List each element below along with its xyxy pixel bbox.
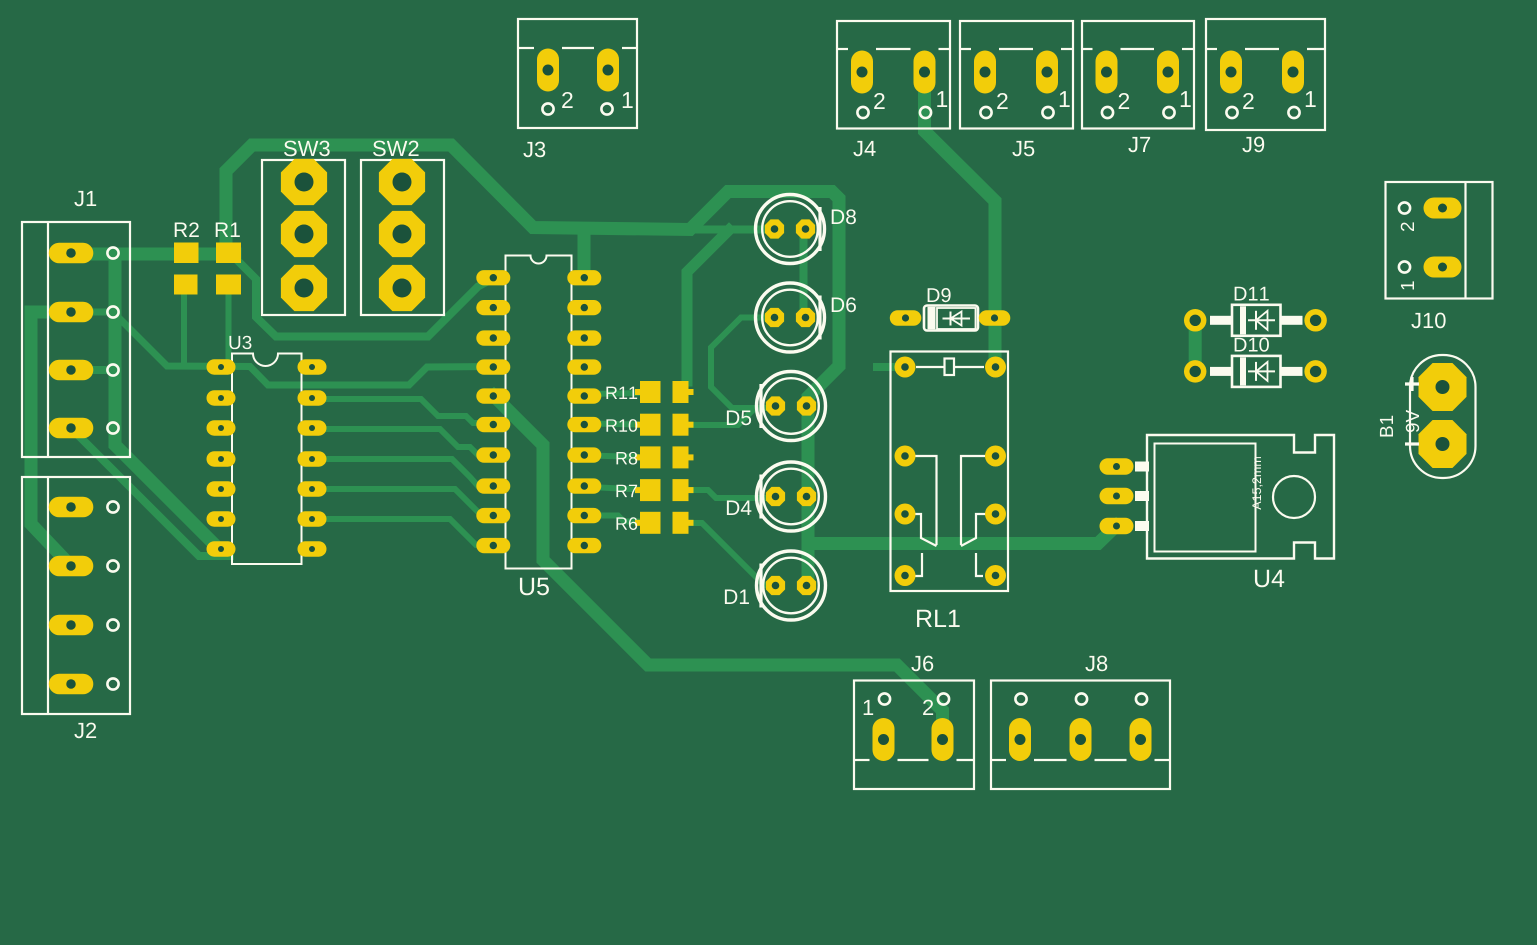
SW3 pad 1 — [281, 159, 327, 205]
wire U3 pin10 staircase — [326, 459, 493, 486]
D4 cathode pad — [766, 487, 785, 506]
J9 pin number 1 — [1306, 91, 1316, 107]
LED D1 outline — [757, 551, 826, 620]
J5 hole ring 1 — [1042, 107, 1053, 118]
U3 pad 5 (left) — [207, 481, 236, 497]
U3 pad 7 (left) — [207, 541, 236, 557]
switch SW3 outline — [262, 160, 345, 315]
U5 pad 15 (right) — [567, 417, 601, 432]
J4 pad 1 — [914, 51, 936, 94]
resistor R11 pad 2 — [673, 381, 694, 403]
B1 pad - — [1419, 420, 1467, 468]
U5 pad 18 (right) — [567, 330, 601, 345]
U3 pad 9 (right) — [298, 511, 327, 527]
IC U3 outline — [232, 354, 302, 565]
wire U3 pin11 staircase — [326, 489, 493, 515]
label J6 — [911, 656, 933, 672]
resistor R7 pad 1 — [635, 479, 661, 501]
J9 hole ring 2 — [1226, 107, 1237, 118]
connector J3 outline — [518, 19, 637, 128]
label J4 — [853, 141, 875, 156]
J8 pad 3 — [1130, 718, 1152, 761]
wire R1 top arc to U5 pin1 — [240, 263, 493, 337]
J3 hole ring 1 — [601, 103, 612, 114]
U3 pad 11 (right) — [298, 451, 327, 467]
J2 hole ring 4 — [107, 678, 118, 689]
U5 pad 9 (left) — [476, 508, 510, 523]
U5 pad 2 (left) — [476, 300, 510, 315]
J9 pin number 2 — [1243, 93, 1253, 109]
label D4 — [727, 501, 752, 515]
J10 pad 2 — [1424, 198, 1462, 219]
wire U5 pin14 to R7 — [590, 487, 640, 490]
LED D6 outline — [756, 283, 825, 352]
J7 pin number 2 — [1119, 93, 1129, 109]
LED D4 outline — [757, 462, 826, 531]
RL1 coil symbol — [916, 359, 984, 376]
U3 pad 12 (right) — [298, 420, 327, 436]
J2 hole ring 1 — [107, 501, 118, 512]
resistor R1 pad 2 — [216, 275, 241, 295]
label U5 — [520, 578, 549, 595]
J1 hole ring 3 — [107, 364, 118, 375]
regulator U4 outline — [1147, 435, 1334, 559]
J10 pin number 2 — [1401, 222, 1414, 231]
U5 pad 7 (left) — [476, 447, 510, 462]
diode D9 outline — [924, 306, 978, 331]
wire J4.1 down to D9/RL1 coil — [925, 92, 996, 367]
wire J1.1 to R2/R1 top pads — [71, 248, 235, 261]
U3 pad 1 (left) — [207, 359, 236, 375]
U5 pad 14 (right) — [567, 447, 601, 462]
label R7 — [616, 485, 637, 497]
RL1 pad 8 — [985, 565, 1006, 586]
label J5 — [1012, 141, 1034, 156]
J8 hole ring 1 — [1015, 693, 1026, 704]
J2 pad 4 — [49, 674, 94, 695]
J8 hole ring 3 — [1136, 693, 1147, 704]
resistor R1 pad 1 — [216, 243, 241, 264]
wire R11 up to cathode bus — [687, 230, 729, 381]
wire U5 pin6 down to J6.2 — [494, 396, 943, 739]
connector J8 outline — [991, 681, 1170, 790]
label R6 — [616, 517, 637, 530]
wire J1.3 stub to via column — [71, 366, 115, 374]
wire D8 cathode to D6 cathode — [800, 229, 808, 318]
D10 pad 2 — [1304, 360, 1327, 383]
J9 hole ring 1 — [1288, 107, 1299, 118]
U4 lead 1 — [1135, 462, 1149, 472]
SW2 pad 1 — [379, 159, 425, 205]
label J3 — [523, 142, 545, 158]
resistor R2 pad 1 — [174, 243, 199, 264]
J7 pin number 1 — [1181, 91, 1191, 107]
J5 pad 1 — [1036, 51, 1058, 94]
U3 pad 6 (left) — [207, 511, 236, 527]
label D9 — [928, 288, 951, 302]
label R11 — [606, 387, 637, 399]
U3 pad 8 (right) — [298, 541, 327, 557]
label D11 — [1235, 287, 1269, 301]
RL1 pad 5 — [895, 504, 916, 525]
LED D5 outline — [757, 372, 826, 441]
SW2 pad 2 — [379, 211, 425, 257]
J1 hole ring 2 — [107, 306, 118, 317]
wire U3 pin8 to U5 pin6 staircase — [326, 399, 493, 423]
connector J2 outline — [22, 477, 130, 714]
J6 pin number 1 — [864, 700, 873, 715]
U3 pad 3 (left) — [207, 420, 236, 436]
connector J1 outline — [22, 222, 130, 457]
J5 pin number 1 — [1060, 91, 1070, 107]
RL1 pad 6 — [985, 504, 1006, 525]
D6 cathode pad — [765, 308, 784, 327]
J2 pad 1 — [49, 497, 94, 518]
connector J6 outline — [854, 681, 974, 790]
connector J10 outline — [1386, 182, 1493, 299]
connector J9 outline — [1206, 19, 1325, 130]
J3 pin number 2 — [562, 92, 572, 108]
J1 pad 4 — [49, 418, 94, 439]
J5 pad 2 — [974, 51, 996, 94]
RL1 pad 1 — [895, 357, 916, 378]
RL1 switch symbol right — [961, 456, 987, 576]
label J7 — [1128, 137, 1150, 152]
J2 hole ring 3 — [107, 619, 118, 630]
label D1 — [725, 590, 749, 604]
wire D11 to D10 anodes — [1189, 325, 1202, 366]
label J2 — [74, 723, 96, 739]
SW3 pad 3 — [281, 265, 327, 311]
U5 pad 12 (right) — [567, 508, 601, 523]
U4 lead 3 — [1135, 521, 1149, 531]
U5 pad 16 (right) — [567, 388, 601, 403]
wire RL1 coil stub — [877, 363, 895, 371]
J1 pad 1 — [49, 243, 94, 264]
resistor R11 pad 1 — [635, 381, 661, 403]
label R1 — [216, 223, 240, 237]
wire D6 anode down to D5 anode net — [711, 318, 775, 409]
J8 pad 1 — [1009, 718, 1031, 761]
J6 pin number 2 — [923, 700, 933, 715]
D8 anode pad — [796, 219, 815, 238]
D8 cathode pad — [765, 219, 784, 238]
label SW3 — [284, 141, 330, 157]
J4 pin number 1 — [937, 91, 947, 107]
label RL1 — [917, 610, 960, 627]
J5 hole ring 2 — [980, 107, 991, 118]
label J8 — [1085, 656, 1107, 672]
RL1 pad 3 — [895, 446, 916, 467]
SW3 pad 2 — [281, 211, 327, 257]
U4 pad 2 — [1100, 488, 1134, 505]
U5 pad 6 (left) — [476, 417, 510, 432]
resistor R6 pad 2 — [673, 512, 694, 534]
RL1 switch symbol left — [913, 456, 937, 576]
J3 pin number 1 — [623, 92, 633, 108]
U5 pad 17 (right) — [567, 359, 601, 374]
wire R6 to D1 anode — [688, 523, 775, 586]
relay RL1 outline — [891, 352, 1009, 592]
U5 pad 5 (left) — [476, 388, 510, 403]
J1 hole ring 1 — [107, 247, 118, 258]
U3 pad 4 (left) — [207, 451, 236, 467]
connector J7 outline — [1082, 21, 1194, 129]
wire R1 bottom down to notch net — [226, 294, 232, 366]
U4 hole size label — [1252, 457, 1262, 510]
LED D8 outline — [756, 195, 825, 264]
J8 pad 2 — [1070, 718, 1092, 761]
D5 cathode pad — [766, 396, 785, 415]
resistor R8 pad 1 — [635, 446, 661, 468]
J6 pad 2 — [932, 718, 954, 761]
resistor R10 pad 2 — [673, 414, 694, 436]
B1 value 9V — [1406, 410, 1419, 432]
label R8 — [616, 452, 637, 465]
J2 hole ring 2 — [107, 560, 118, 571]
J7 hole ring 1 — [1163, 107, 1174, 118]
battery B1 outline — [1410, 355, 1476, 478]
B1 pad + — [1419, 363, 1467, 411]
U4 mounting hole — [1273, 476, 1315, 518]
J6 hole ring 2 — [938, 693, 949, 704]
RL1 pad 2 — [985, 357, 1006, 378]
wire U5 pin15 to R8 — [590, 456, 640, 458]
J1 pad 2 — [49, 302, 94, 323]
D11 pad 2 — [1304, 309, 1327, 332]
D1 cathode pad — [766, 576, 785, 595]
RL1 pad 4 — [985, 446, 1006, 467]
J10 hole ring 2 — [1399, 202, 1410, 213]
J4 pin number 2 — [874, 93, 884, 109]
J10 pad 1 — [1424, 257, 1462, 278]
resistor R7 pad 2 — [673, 479, 694, 501]
label SW2 — [373, 141, 419, 157]
U5 pad 10 (left) — [476, 538, 510, 553]
label D5 — [727, 411, 751, 426]
wire U3 pin12 staircase — [326, 519, 493, 546]
J2 pad 2 — [49, 556, 94, 577]
IC U5 outline — [506, 256, 572, 569]
J7 hole ring 2 — [1102, 107, 1113, 118]
label U3 — [229, 336, 251, 349]
label R2 — [175, 222, 199, 237]
wire stub junction to U5 pin20 — [578, 230, 591, 279]
J7 pad 1 — [1157, 51, 1179, 94]
J4 hole ring 1 — [920, 107, 931, 118]
U5 pad 4 (left) — [476, 359, 510, 374]
switch SW2 outline — [361, 160, 444, 315]
J9 pad 1 — [1282, 51, 1304, 94]
D9 pad 2 — [979, 310, 1011, 326]
B1 minus symbol — [1405, 442, 1419, 445]
diode D11 outline — [1210, 305, 1303, 336]
diode D10 outline — [1210, 356, 1303, 387]
J7 pad 2 — [1096, 51, 1118, 94]
J2 pad 3 — [49, 615, 94, 636]
wire LED column to U4 pin 3 — [808, 526, 1116, 544]
U5 pad 3 (left) — [476, 330, 510, 345]
label B1 — [1380, 416, 1393, 437]
label D8 — [832, 209, 856, 224]
resistor R10 pad 1 — [635, 414, 661, 436]
U5 pad 8 (left) — [476, 478, 510, 493]
D5 anode pad — [797, 396, 816, 415]
label R10 — [606, 419, 637, 432]
J4 pad 2 — [851, 51, 873, 94]
J1 hole ring 4 — [107, 422, 118, 433]
U4 inner body — [1155, 444, 1256, 552]
label U4 — [1255, 570, 1284, 587]
J6 hole ring 1 — [879, 693, 890, 704]
J10 hole ring 1 — [1399, 261, 1410, 272]
resistor R6 pad 1 — [635, 512, 661, 534]
J10 pin number 1 — [1401, 281, 1414, 289]
resistor R2 pad 2 — [174, 275, 198, 295]
J3 pad 2 — [537, 49, 559, 92]
D9 pad 1 — [890, 310, 922, 326]
wire R1 top over SW3/SW2 to LED cathode column — [226, 145, 839, 586]
RL1 pad 7 — [895, 565, 916, 586]
U3 pad 10 (right) — [298, 481, 327, 497]
connector J5 outline — [960, 21, 1073, 129]
wire cathode bus spur to D8 anode — [690, 226, 775, 234]
label J9 — [1242, 137, 1264, 153]
U5 pad 19 (right) — [567, 300, 601, 315]
wire R2 bottom to U3 pin1 net — [181, 294, 187, 366]
U5 pad 11 (right) — [567, 538, 601, 553]
wire U5 pin16 to R10 — [590, 424, 640, 425]
B1 plus symbol — [1405, 377, 1419, 391]
U4 lead 2 — [1135, 491, 1149, 501]
D11 pad 1 — [1184, 309, 1207, 332]
D4 anode pad — [797, 487, 816, 506]
J1 pad 3 — [49, 360, 94, 381]
U3 pad 13 (right) — [298, 390, 327, 406]
J4 hole ring 2 — [857, 107, 868, 118]
J8 hole ring 2 — [1076, 693, 1087, 704]
U5 pad 20 (right) — [567, 270, 601, 285]
label D10 — [1235, 338, 1269, 352]
D6 anode pad — [796, 308, 815, 327]
U3 pad 14 (right) — [298, 359, 327, 375]
SW2 pad 3 — [379, 265, 425, 311]
J3 pad 1 — [597, 49, 619, 92]
label J10 — [1411, 313, 1445, 329]
D10 pad 1 — [1184, 360, 1207, 383]
label J1 — [74, 191, 96, 206]
label D6 — [832, 297, 856, 312]
J5 pin number 2 — [997, 93, 1007, 109]
wire J1.2 to U3 pin 1 and notch path to U5 pin4 — [71, 312, 493, 385]
wire R7 to D4 anode — [688, 490, 775, 498]
wire J1 via column down diagonal to U3 pin 7 — [115, 254, 221, 551]
U4 pad 3 — [1100, 518, 1134, 535]
wire U3 pin9 staircase — [326, 429, 493, 455]
J9 pad 2 — [1220, 51, 1242, 94]
resistor R8 pad 2 — [673, 446, 694, 468]
J6 pad 1 — [873, 718, 895, 761]
U3 pad 2 (left) — [207, 390, 236, 406]
wire J1.4 diagonal to lower bus — [71, 428, 230, 556]
U5 pad 1 (left) — [476, 270, 510, 285]
connector J4 outline — [837, 21, 950, 129]
wire R10 to D5 anode — [688, 408, 775, 425]
wire U5 pin13 to R6 — [590, 516, 640, 522]
wire U5 pin17 to R11 — [590, 393, 640, 394]
U5 pad 13 (right) — [567, 478, 601, 493]
J3 hole ring 2 — [542, 103, 553, 114]
wire J1.2 left leg down to J2.2 — [31, 312, 71, 565]
U4 pad 1 — [1100, 458, 1134, 475]
D1 anode pad — [797, 576, 816, 595]
